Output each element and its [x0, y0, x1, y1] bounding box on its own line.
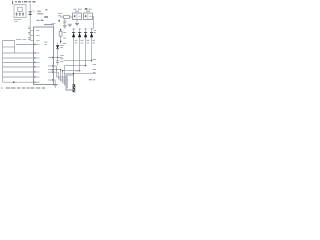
wire left bus steps	[3, 41, 15, 54]
pin numbers U1 left	[34, 44, 35, 83]
caption figure text	[1, 87, 45, 89]
wire port P1 bus	[3, 52, 34, 54]
wire LED cathode returns	[64, 60, 92, 62]
value label POWER LED	[37, 11, 43, 14]
pin numbers U1 right	[52, 57, 53, 81]
wire common return to edge	[64, 73, 96, 75]
capacitor C2	[19, 12, 21, 16]
value label 10uF	[36, 19, 39, 21]
terminal block TB2	[84, 13, 93, 20]
ground TB1	[76, 20, 78, 24]
wire TB2 to LED rail	[92, 16, 93, 29]
bridge rectifier BR1	[18, 7, 23, 11]
resistor R1 with wire	[60, 16, 73, 18]
terminal block TB1	[73, 13, 82, 20]
wire LED columns	[73, 30, 75, 74]
resistor R2	[60, 29, 62, 31]
capacitor C4	[64, 18, 66, 21]
wire +5V rail	[29, 4, 31, 41]
diode D6	[57, 43, 59, 46]
driver IC U2	[66, 75, 74, 90]
microcontroller U1 AT89C2051	[34, 27, 54, 85]
wire RST with label	[16, 44, 34, 46]
wire RST node	[54, 57, 63, 59]
ground U1 pin 10	[54, 80, 56, 84]
net label +5V POWER SUPPLY (title text)	[12, 1, 35, 4]
wire U1 right pins to bus	[54, 66, 61, 72]
capacitor C1	[16, 12, 18, 16]
wire XTAL1 XTAL2 stubs	[30, 30, 33, 40]
LEDs D2 D3 D4 D5	[72, 33, 93, 37]
wire PS1 output	[14, 19, 22, 21]
capacitor C8 reset	[57, 59, 59, 61]
LED D1 power indicator	[29, 11, 32, 14]
stamp block	[73, 84, 76, 92]
value labels TB1 TB2	[74, 9, 92, 11]
value label C7	[44, 42, 47, 44]
node connectors LED anodes	[73, 28, 92, 29]
value label AT89C2051	[44, 24, 53, 26]
pin labels U1	[36, 30, 52, 82]
power supply module PS1	[14, 5, 26, 18]
ground	[68, 24, 72, 27]
value labels D2-D5	[75, 40, 95, 43]
crystal X1 with capacitors C5 C6	[28, 27, 30, 29]
net label +5V	[44, 16, 48, 18]
capacitor C3	[22, 12, 24, 16]
power symbol VCC pin 20	[52, 24, 56, 27]
